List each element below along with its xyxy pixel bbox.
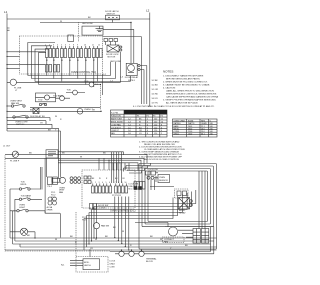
oven lamp circle (20, 228, 27, 235)
svg-text:WHEN SERVICING CONTROLS. WIRIN: WHEN SERVICING CONTROLS. WIRING ERRORS (166, 93, 217, 95)
svg-text:5: 5 (61, 45, 62, 47)
transformer (48, 197, 52, 201)
module riser (89, 250, 91, 257)
svg-text:NOTES: NOTES (163, 70, 173, 74)
tod broil switch (19, 188, 21, 190)
junction dot x131 (130, 22, 131, 23)
svg-text:6: 6 (147, 130, 148, 132)
svg-text:W: W (139, 122, 141, 124)
svg-text:12: 12 (98, 45, 100, 47)
svg-text:LATCH: LATCH (84, 264, 91, 267)
svg-text:3: 3 (147, 122, 148, 124)
svg-text:BROIL: BROIL (21, 184, 28, 186)
terminal strip block 2 (202, 229, 209, 244)
svg-text:W: W (60, 21, 62, 23)
row DC labels (92, 182, 127, 184)
convect fan dashed label box (163, 237, 185, 243)
svg-text:10: 10 (125, 182, 127, 184)
svg-text:BLOCK: BLOCK (146, 261, 154, 263)
wire bus y131 (7, 130, 61, 132)
risers from control D/C (99, 158, 129, 170)
bottom bus 1 (10, 237, 217, 239)
svg-text:14: 14 (161, 122, 163, 124)
wire drop x131 to door relay (130, 23, 132, 64)
svg-text:MOTOR: MOTOR (108, 57, 116, 59)
svg-text:DOOR SW: DOOR SW (148, 169, 158, 171)
row DC top labels (92, 178, 125, 180)
svg-text:3: 3 (53, 45, 54, 47)
svg-text:6: 6 (109, 182, 110, 184)
svg-text:7: 7 (115, 182, 116, 184)
vertical drops from top section (59, 128, 61, 178)
row A pin stubs (47, 46, 98, 49)
small connector block P4 (48, 177, 53, 185)
dark squares row (134, 187, 137, 190)
oven fan capsule (52, 178, 60, 182)
wire L1 vertical feed (6, 14, 8, 132)
svg-text:BU: BU (185, 245, 188, 247)
svg-text:P4: P4 (161, 116, 163, 118)
svg-text:8: 8 (73, 45, 74, 47)
long vertical x60 (60, 213, 62, 237)
wire top bus y22.5 (40, 22, 131, 24)
bake switch (19, 198, 21, 200)
svg-text:11: 11 (92, 45, 94, 47)
wire y186.5 (150, 186, 174, 188)
svg-text:2. WIRES MUST BE PLUGGED CORRE: 2. WIRES MUST BE PLUGGED CORRECTLY. (163, 81, 208, 83)
wire y162.8 (58, 163, 138, 171)
svg-text:4: 4 (147, 124, 148, 126)
right frame verticals (211, 227, 214, 254)
terminal block circles (119, 251, 124, 256)
svg-text:XFMR: XFMR (47, 209, 53, 211)
row A drop wires (47, 58, 98, 88)
oven light switch (13, 116, 15, 118)
svg-text:W: W (55, 116, 57, 118)
svg-text:UNLK: UNLK (110, 264, 116, 266)
connector box on feed (46, 150, 58, 158)
svg-text:CAN CAUSE IMPROPER AND DANGERO: CAN CAUSE IMPROPER AND DANGEROUS OPERATI… (166, 95, 218, 98)
svg-text:3-8 GY: 3-8 GY (152, 98, 159, 100)
wire drop x133.8 (133, 30, 135, 64)
oven cavity nested box 1 (139, 164, 217, 250)
connector circle grid (70, 177, 73, 180)
svg-text:W: W (95, 239, 97, 241)
wire top bus y19 (7, 18, 150, 20)
svg-text:TOD BAKE: TOD BAKE (53, 94, 64, 97)
staircase left drops (84, 204, 97, 251)
svg-text:LOCK: LOCK (110, 261, 116, 263)
svg-text:LATCH SW: LATCH SW (110, 60, 121, 63)
svg-text:LABEL ALL WIRES PRIOR TO DISCO: LABEL ALL WIRES PRIOR TO DISCONNECTION (166, 89, 214, 92)
right notes text block (139, 141, 185, 162)
svg-text:OVEN: OVEN (159, 177, 165, 179)
svg-text:1-3: 1-3 (128, 122, 131, 124)
door lock motor relay box (107, 45, 119, 52)
transformer joint wire (45, 211, 60, 213)
svg-text:120: 120 (154, 124, 157, 126)
wire feed y56.5 (7, 56, 20, 58)
wire y222.5 (135, 223, 168, 228)
svg-text:1600: 1600 (188, 133, 192, 135)
svg-text:2: 2 (95, 182, 96, 184)
svg-text:LIGHT: LIGHT (19, 207, 26, 209)
svg-text:OVEN CONTROL (T/C): OVEN CONTROL (T/C) (71, 71, 96, 74)
svg-text:120: 120 (154, 127, 157, 129)
center connector wire bundle (111, 152, 121, 183)
door switch cluster drops (151, 179, 155, 190)
svg-text:3. CABINET MUST BE GROUNDED TO: 3. CABINET MUST BE GROUNDED TO L BASE. (163, 83, 210, 86)
svg-text:P2: P2 (147, 116, 149, 118)
table P1 connector chart (111, 110, 168, 137)
nested L wires inside control (28, 43, 55, 76)
wire pair drop A (45, 158, 47, 213)
wire bundle pin labels (152, 80, 159, 105)
svg-text:1-5: 1-5 (128, 127, 131, 129)
svg-text:L1: L1 (4, 10, 8, 14)
svg-text:MOD.: MOD. (84, 262, 90, 264)
door lock motor box (36, 93, 56, 102)
wire feed y158.3 (5, 158, 144, 165)
left bus verticals (9, 189, 11, 238)
svg-text:1. DISCONNECT RANGE FROM POWER: 1. DISCONNECT RANGE FROM POWER (163, 74, 204, 77)
door latch switch box (106, 15, 120, 20)
fuse circle on monitor wire (10, 79, 16, 85)
svg-text:DOOR RELAY: DOOR RELAY (125, 76, 139, 79)
svg-text:3-2 BK: 3-2 BK (152, 80, 159, 82)
small relay with X (33, 108, 39, 114)
lamp dashed boxlet (175, 189, 189, 198)
svg-text:1-4: 1-4 (128, 124, 131, 126)
svg-text:2: 2 (161, 133, 162, 135)
third switch (17, 210, 19, 212)
staircase wires center (124, 163, 151, 173)
drops to bottom buses (115, 197, 129, 251)
svg-text:BEFORE SERVICING ANY PARTS.: BEFORE SERVICING ANY PARTS. (166, 77, 201, 80)
convect fan circle (169, 227, 178, 236)
table dark header (124, 110, 167, 114)
svg-text:SENSOR: SENSOR (159, 180, 168, 182)
svg-text:FAN SW: FAN SW (11, 102, 19, 105)
oven control (T/C) dashed box (20, 36, 103, 74)
wire bus under control y81.5 (35, 76, 130, 82)
svg-text:6: 6 (65, 45, 66, 47)
svg-text:GRILL: GRILL (174, 133, 179, 135)
wire bus y120.7 (7, 121, 46, 124)
oven fan circle (60, 177, 66, 183)
svg-text:P1: P1 (137, 116, 139, 118)
wire main feed y154.3 (5, 154, 147, 163)
wire bus y107.7 (30, 107, 101, 109)
svg-text:7: 7 (69, 45, 70, 47)
thermostat circle mid (73, 90, 78, 95)
svg-text:2: 2 (49, 45, 50, 47)
connector group right (134, 182, 145, 190)
wire feed y151.8 (58, 152, 124, 155)
terminal strip block 1 (193, 229, 200, 244)
svg-text:FAN: FAN (59, 191, 64, 194)
thermostat circle on y84.5 (89, 82, 94, 87)
bottom bus 3 (13, 243, 211, 245)
wire latch switch drop (112, 20, 114, 23)
dashed continuation x100.5 (100, 85, 102, 111)
svg-text:240: 240 (210, 133, 213, 135)
oven cavity nested box 2 (142, 166, 214, 227)
svg-text:W: W (55, 239, 57, 241)
svg-text:9: 9 (77, 45, 78, 47)
latch assembly box (82, 26, 103, 35)
wire control drop x102.3 (101, 74, 103, 95)
tod cluster contacts (39, 103, 41, 105)
svg-text:OVEN LT: OVEN LT (111, 130, 120, 132)
svg-text:12: 12 (161, 119, 163, 121)
strip feed wires (178, 230, 193, 237)
sensor box (158, 175, 170, 183)
control board component row B (46, 65, 60, 73)
wire monitor y82.3 (20, 52, 121, 82)
notes text block (133, 74, 224, 108)
svg-text:3-5 OR: 3-5 OR (152, 89, 159, 91)
staircase wires band (84, 190, 196, 219)
svg-text:BAKE ELEM: BAKE ELEM (111, 118, 122, 121)
L1 tick stubs (7, 28, 10, 30)
left stack in D/C box (84, 176, 87, 179)
svg-text:10: 10 (84, 45, 86, 47)
svg-text:W: W (122, 231, 124, 233)
wire y36.5 (103, 36, 141, 38)
svg-text:3: 3 (99, 182, 100, 184)
small rect components above relay (104, 39, 108, 42)
svg-text:8: 8 (161, 124, 162, 126)
svg-text:ELEM: ELEM (188, 120, 194, 122)
bottom bus 2 (15, 240, 214, 242)
svg-text:+ LOCK: + LOCK (98, 207, 106, 209)
wire bus y111.3 (7, 110, 101, 112)
svg-text:1: 1 (45, 45, 46, 47)
svg-text:TOD: TOD (67, 90, 72, 92)
svg-text:P3: P3 (153, 116, 155, 118)
thermostat circle low (60, 96, 65, 101)
svg-text:8: 8 (147, 133, 148, 135)
svg-text:240: 240 (154, 119, 157, 121)
svg-text:TOD BAKE: TOD BAKE (21, 195, 32, 198)
bottom bus 4 (20, 244, 217, 247)
long vertical x76 dashed (75, 212, 77, 257)
svg-text:1-8: 1-8 (128, 133, 131, 135)
cavity riser wires (199, 171, 205, 229)
svg-text:4: 4 (102, 182, 103, 184)
svg-text:3-9 TN: 3-9 TN (152, 103, 159, 105)
door lock module inner box (83, 259, 100, 270)
wire pair drop B (41, 167, 43, 190)
wire feed y68.4 (7, 67, 20, 69)
door relay coil circle (128, 65, 135, 72)
svg-text:B. OVEN CONN CHART: B. OVEN CONN CHART (126, 111, 152, 114)
bottom bus 5 (5, 249, 217, 251)
wire bus under control y84.5 (39, 84, 90, 86)
svg-text:PL USE F: PL USE F (10, 161, 20, 163)
svg-text:TOD: TOD (84, 81, 89, 83)
door lock module dashed box (76, 257, 108, 273)
misc wire labels top (30, 17, 124, 131)
svg-text:OVEN CONTROL (D/C): OVEN CONTROL (D/C) (110, 210, 136, 213)
svg-text:N.O.: N.O. (129, 189, 134, 191)
oven light circle (77, 109, 83, 115)
wire bus y117.5 (7, 118, 50, 122)
svg-text:W: W (160, 239, 162, 241)
svg-text:CONV FAN: CONV FAN (111, 123, 121, 126)
oven vent fan switch (11, 105, 13, 107)
svg-text:1-6: 1-6 (128, 130, 131, 132)
wire bus y124.3 (7, 124, 52, 128)
wire y160.2 (58, 160, 141, 168)
svg-text:6. L1 NOT AT PANEL IN CLEAN CY: 6. L1 NOT AT PANEL IN CLEAN CYCLE IF DOO… (133, 105, 215, 108)
table element ratings chart (173, 119, 218, 137)
dashed drop x78.3 (77, 22, 79, 42)
svg-text:3-6 RD: 3-6 RD (152, 94, 159, 96)
svg-text:4: 4 (57, 45, 58, 47)
wire bus under control y75.5 (28, 62, 111, 76)
oven control (D/C) dashed box (82, 170, 135, 208)
wire feeds into control box (7, 51, 20, 53)
module stub wires (70, 261, 83, 266)
bus junction dots (34, 237, 142, 251)
svg-text:36.1: 36.1 (201, 133, 205, 135)
svg-text:FAN SW: FAN SW (101, 225, 109, 228)
broil relay (179, 198, 190, 210)
svg-text:FUNCTION: FUNCTION (111, 116, 121, 118)
svg-text:1: 1 (92, 182, 93, 184)
svg-text:FAN: FAN (111, 132, 115, 135)
control board component row A (46, 49, 103, 58)
svg-text:ALL PARTS MUST BE IN PLACE.: ALL PARTS MUST BE IN PLACE. (166, 101, 199, 104)
oven cavity nested box 4 (148, 171, 208, 222)
wire bus y29.5 (103, 28, 134, 30)
door relay box (126, 63, 137, 75)
wire y251.5 (110, 251, 211, 253)
control D/C component row (92, 186, 128, 193)
svg-text:1-2: 1-2 (128, 119, 131, 121)
motor circle (45, 95, 50, 100)
fuse in bottom feed (12, 151, 18, 157)
svg-text:P2 P3 P4: P2 P3 P4 (112, 195, 122, 197)
svg-text:BROIL ELEM: BROIL ELEM (111, 122, 123, 124)
wire bus y128.3 (7, 127, 59, 129)
svg-text:4: 4 (161, 130, 162, 132)
svg-text:3-4 BU: 3-4 BU (152, 85, 159, 87)
dlb component (90, 204, 93, 210)
svg-text:LATCH SW: LATCH SW (82, 22, 93, 25)
row DC pin stubs (93, 184, 127, 187)
svg-text:5: 5 (147, 127, 148, 129)
svg-text:COM: COM (110, 267, 115, 269)
chassis terminal symbol (96, 26, 104, 32)
wire bus under control y78.5 (31, 62, 115, 79)
component on box top (68, 35, 74, 42)
svg-text:TOD: TOD (38, 100, 43, 102)
svg-text:AND DOOR IN CLOSED POSITION.: AND DOOR IN CLOSED POSITION. (144, 158, 179, 161)
control interior feed wires (20, 52, 46, 65)
svg-text:NOTE 6: NOTE 6 (128, 80, 135, 82)
bottom section dashed border (5, 156, 110, 252)
svg-text:6: 6 (161, 127, 162, 129)
svg-text:5. VERIFY PROPER OPERATION AFT: 5. VERIFY PROPER OPERATION AFTER SERVICI… (163, 99, 217, 102)
svg-text:120: 120 (154, 133, 157, 135)
svg-text:L1 OUT: L1 OUT (3, 146, 11, 148)
oven cavity nested box 3 (145, 169, 211, 225)
svg-text:LOCK MOT: LOCK MOT (111, 127, 122, 129)
svg-text:5: 5 (106, 182, 107, 184)
convection relay circle (93, 223, 99, 229)
row A pin labels (45, 45, 100, 63)
svg-text:L2: L2 (146, 9, 150, 13)
svg-text:4. CAUTION:: 4. CAUTION: (163, 86, 176, 89)
svg-text:2: 2 (147, 119, 148, 121)
svg-text:240: 240 (154, 122, 157, 124)
door relay pin circles (138, 64, 140, 66)
svg-text:120: 120 (154, 130, 157, 132)
right vertical wire bundle (140, 37, 142, 105)
